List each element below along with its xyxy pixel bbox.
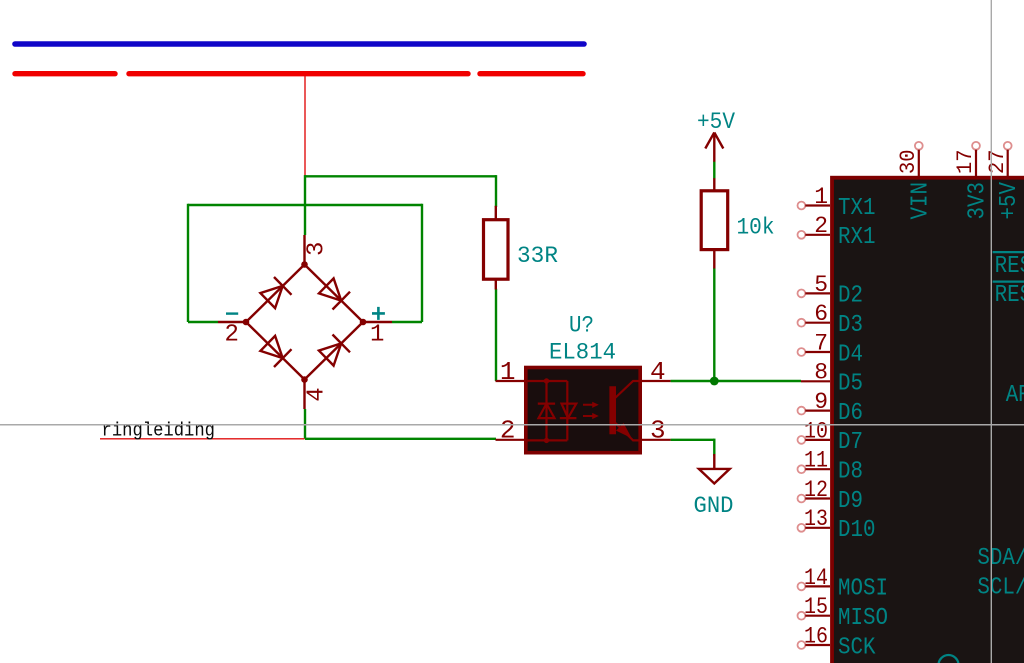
svg-text:SCL/: SCL/ (977, 574, 1024, 601)
svg-text:2: 2 (225, 322, 239, 349)
resistor R? 10k pin stub bottom (713, 249, 715, 268)
polarity minus (226, 312, 238, 314)
IC pin 13 D10 (798, 506, 876, 544)
bridge pin stub 1 (363, 321, 392, 323)
svg-text:TX1: TX1 (838, 195, 876, 222)
wire (495, 175, 497, 207)
IC pin name RESET (overbar) row 1 (993, 251, 1024, 253)
polarity plus (372, 307, 385, 320)
wire (671, 439, 715, 441)
optocoupler U? internal graphics (527, 378, 640, 443)
crosshair vertical (990, 0, 992, 663)
IC pin 7 D4 (798, 330, 864, 368)
svg-text:4: 4 (303, 387, 330, 401)
svg-text:VIN: VIN (907, 182, 934, 220)
svg-text:GND: GND (694, 493, 734, 519)
svg-text:MOSI: MOSI (838, 576, 888, 603)
svg-text:16: 16 (804, 623, 828, 649)
IC pin 11 D8 (798, 448, 864, 486)
wire (305, 175, 496, 177)
svg-text:6: 6 (814, 301, 828, 327)
svg-text:1: 1 (500, 357, 516, 387)
wire (421, 204, 423, 322)
crosshair horizontal (0, 424, 1024, 426)
wire (713, 439, 715, 456)
wire (495, 289, 497, 381)
svg-text:SCK: SCK (838, 634, 876, 661)
wire segment (red bus 1) (15, 71, 115, 76)
svg-text:15: 15 (804, 594, 828, 620)
node 4 (301, 376, 308, 383)
svg-text:SDA/: SDA/ (977, 545, 1024, 572)
svg-text:14: 14 (804, 565, 828, 591)
svg-text:D3: D3 (838, 312, 863, 339)
wire segment (red bus 3) (480, 71, 583, 76)
svg-text:2: 2 (500, 416, 516, 446)
diode (bridge bottom-left, 2 to 4) (260, 336, 282, 358)
svg-text:17: 17 (953, 150, 978, 175)
IC pin 10 D7 (798, 418, 864, 456)
wire (188, 321, 218, 323)
svg-text:+5V: +5V (697, 109, 735, 135)
svg-text:RES: RES (995, 282, 1024, 309)
diode (bridge bottom-right, 4 to 1) (319, 343, 341, 365)
wire (thin red, net ringleiding) (100, 438, 305, 440)
svg-text:D10: D10 (838, 517, 876, 544)
IC pin 2 RX1 (798, 213, 876, 251)
svg-text:U?: U? (569, 313, 594, 339)
IC module body (832, 178, 1024, 663)
svg-text:2: 2 (814, 213, 828, 239)
svg-text:12: 12 (804, 477, 828, 503)
svg-text:EL814: EL814 (549, 340, 616, 366)
svg-text:7: 7 (814, 330, 828, 356)
resistor R? 33R body (484, 220, 509, 280)
bridge pin stub 4 (303, 380, 305, 410)
svg-text:30: 30 (896, 150, 921, 175)
ground symbol (699, 454, 730, 484)
svg-text:1: 1 (370, 322, 384, 349)
svg-text:AR: AR (1006, 382, 1024, 409)
IC pin 15 MISO (798, 594, 889, 632)
diode (bridge top-left, 2 to 3) (260, 286, 282, 308)
svg-text:D6: D6 (838, 400, 863, 427)
svg-text:1: 1 (814, 184, 828, 210)
junction (710, 377, 719, 386)
svg-text:33R: 33R (517, 243, 558, 269)
svg-text:3V3: 3V3 (965, 182, 992, 220)
node 1 (360, 319, 367, 326)
svg-text:D7: D7 (838, 429, 863, 456)
svg-text:13: 13 (804, 506, 828, 532)
wire (392, 321, 422, 323)
svg-text:+5V: +5V (996, 181, 1023, 219)
diode (bridge top-right, 3 to 1) (319, 278, 341, 300)
optocoupler U? body (526, 368, 640, 453)
svg-text:3: 3 (303, 242, 330, 256)
IC top pin 17 3V3 (953, 142, 991, 220)
svg-text:D5: D5 (838, 371, 863, 398)
resistor R? 10k pin stub top (713, 178, 715, 191)
node 3 (301, 261, 308, 268)
svg-text:D2: D2 (838, 283, 863, 310)
svg-text:10: 10 (804, 418, 828, 444)
wire (671, 380, 801, 382)
optocoupler pin 2 stub (496, 439, 527, 441)
node 2 (243, 319, 250, 326)
svg-text:4: 4 (650, 357, 666, 387)
svg-text:5: 5 (814, 272, 828, 298)
bridge rectifier D? (246, 265, 363, 380)
wire (304, 175, 306, 235)
svg-text:D9: D9 (838, 488, 863, 515)
bus (blue) (15, 41, 584, 47)
wire (188, 204, 422, 206)
IC graphic circle (cut) (939, 655, 959, 663)
svg-text:10k: 10k (737, 215, 775, 241)
wire (thin red vertical from bus) (304, 76, 306, 176)
svg-text:RX1: RX1 (838, 224, 876, 251)
IC pin 14 MOSI (798, 565, 889, 603)
IC pin name RESET (overbar) row 2 (993, 281, 1024, 283)
svg-text:27: 27 (985, 150, 1010, 175)
IC pin 1 TX1 (798, 184, 876, 222)
wire (187, 204, 189, 322)
wire segment (red bus 2) (129, 71, 468, 76)
svg-text:ringleiding: ringleiding (102, 419, 216, 441)
IC pin 9 D6 (798, 389, 864, 427)
bridge pin stub 2 (218, 321, 246, 323)
svg-text:3: 3 (650, 416, 666, 446)
wire (304, 409, 306, 439)
svg-text:MISO: MISO (838, 605, 888, 632)
IC top pin 27 +5V (985, 142, 1023, 220)
svg-text:RES: RES (995, 253, 1024, 280)
svg-text:D4: D4 (838, 341, 863, 368)
svg-text:8: 8 (814, 360, 828, 386)
IC top pin 30 VIN (896, 142, 934, 220)
optocoupler pin 3 stub (640, 439, 671, 441)
IC pin 12 D9 (798, 477, 864, 515)
resistor R? 33R pin stub top (495, 206, 497, 220)
bridge pin stub 3 (303, 235, 305, 265)
power +5V symbol (705, 132, 723, 161)
IC pin 5 D2 (798, 272, 864, 310)
svg-text:9: 9 (814, 389, 828, 415)
IC pin 8 D5 (801, 360, 863, 398)
wire (305, 438, 496, 440)
resistor R? 33R pin stub bottom (495, 279, 497, 290)
wire (713, 268, 715, 381)
svg-text:D8: D8 (838, 459, 863, 486)
optocoupler pin 4 stub (640, 380, 671, 382)
optocoupler pin 1 stub (496, 380, 527, 382)
IC pin 6 D3 (798, 301, 864, 339)
IC pin 16 SCK (798, 623, 877, 661)
svg-text:11: 11 (804, 448, 828, 474)
wire (713, 161, 715, 178)
resistor R? 10k body (701, 191, 728, 250)
